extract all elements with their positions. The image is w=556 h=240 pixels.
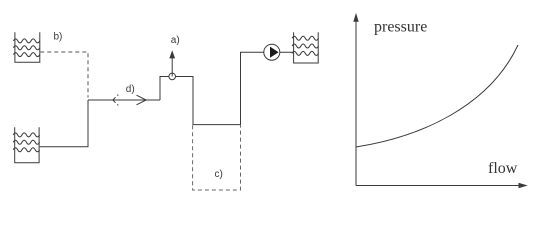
tank T2 (lower-left reservoir) (13, 127, 39, 163)
arrow right at d (137, 95, 147, 105)
wire from tank T2 to junction (40, 100, 88, 147)
svg-text:flow: flow (488, 160, 518, 177)
pump P1 (264, 44, 280, 60)
y-axis (pressure) (355, 20, 357, 186)
arrowhead a (169, 50, 175, 58)
svg-text:pressure: pressure (374, 18, 427, 35)
svg-text:a): a) (171, 35, 180, 46)
wire vent shaft (171, 58, 173, 77)
curve pressure-flow (356, 45, 518, 147)
tank T3 (right reservoir) (292, 32, 318, 63)
wire dashed from tank T1 (40, 52, 88, 98)
wire main horizontal pipe (88, 99, 160, 101)
wire riser to vent line (160, 52, 294, 124)
svg-text:c): c) (215, 169, 223, 180)
svg-text:b): b) (54, 32, 63, 43)
dashed box c (193, 125, 241, 190)
svg-text:d): d) (126, 84, 135, 95)
x-axis (flow) (356, 185, 519, 187)
vent circle (169, 73, 176, 80)
tank T1 (upper-left reservoir) (13, 32, 39, 62)
arrow left (dashed) at d (113, 95, 119, 106)
